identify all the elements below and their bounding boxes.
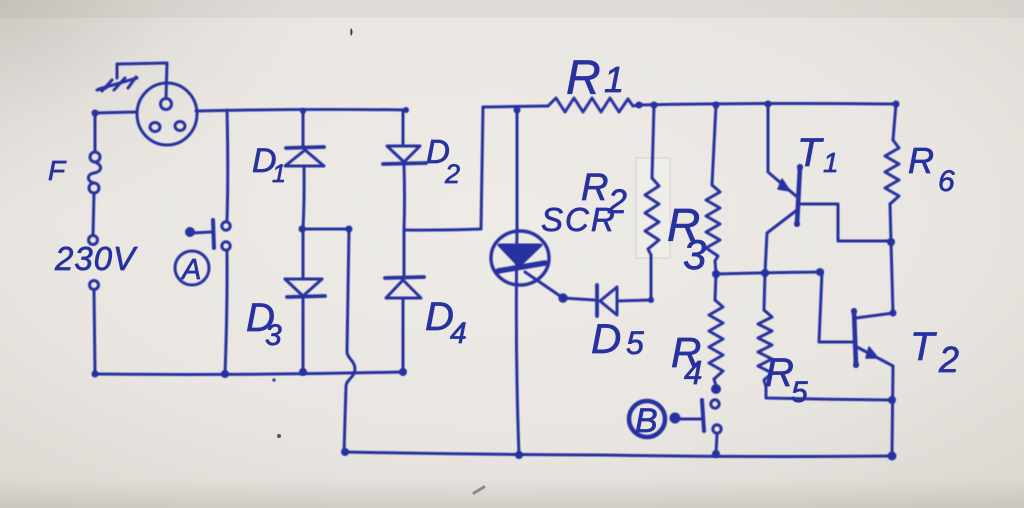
svg-text:6: 6	[938, 165, 955, 198]
svg-text:F: F	[48, 155, 67, 186]
svg-text:B: B	[635, 402, 658, 440]
svg-text:T: T	[910, 325, 937, 369]
svg-text:T: T	[797, 131, 824, 175]
svg-text:230V: 230V	[54, 240, 138, 277]
svg-text:5: 5	[626, 325, 644, 361]
svg-text:SCR: SCR	[541, 201, 617, 238]
svg-text:4: 4	[684, 354, 702, 391]
svg-text:1: 1	[272, 160, 286, 188]
svg-text:D: D	[591, 315, 621, 362]
svg-text:1: 1	[823, 147, 839, 178]
svg-text:1: 1	[604, 59, 624, 100]
svg-text:5: 5	[791, 376, 808, 409]
svg-text:R: R	[765, 351, 794, 395]
svg-text:R: R	[566, 52, 601, 105]
svg-text:2: 2	[444, 159, 460, 189]
svg-text:A: A	[180, 254, 201, 286]
svg-text:2: 2	[938, 339, 959, 380]
svg-text:3: 3	[265, 319, 282, 352]
svg-text:3: 3	[683, 231, 706, 278]
svg-text:4: 4	[450, 317, 467, 350]
svg-text:R: R	[908, 140, 934, 181]
